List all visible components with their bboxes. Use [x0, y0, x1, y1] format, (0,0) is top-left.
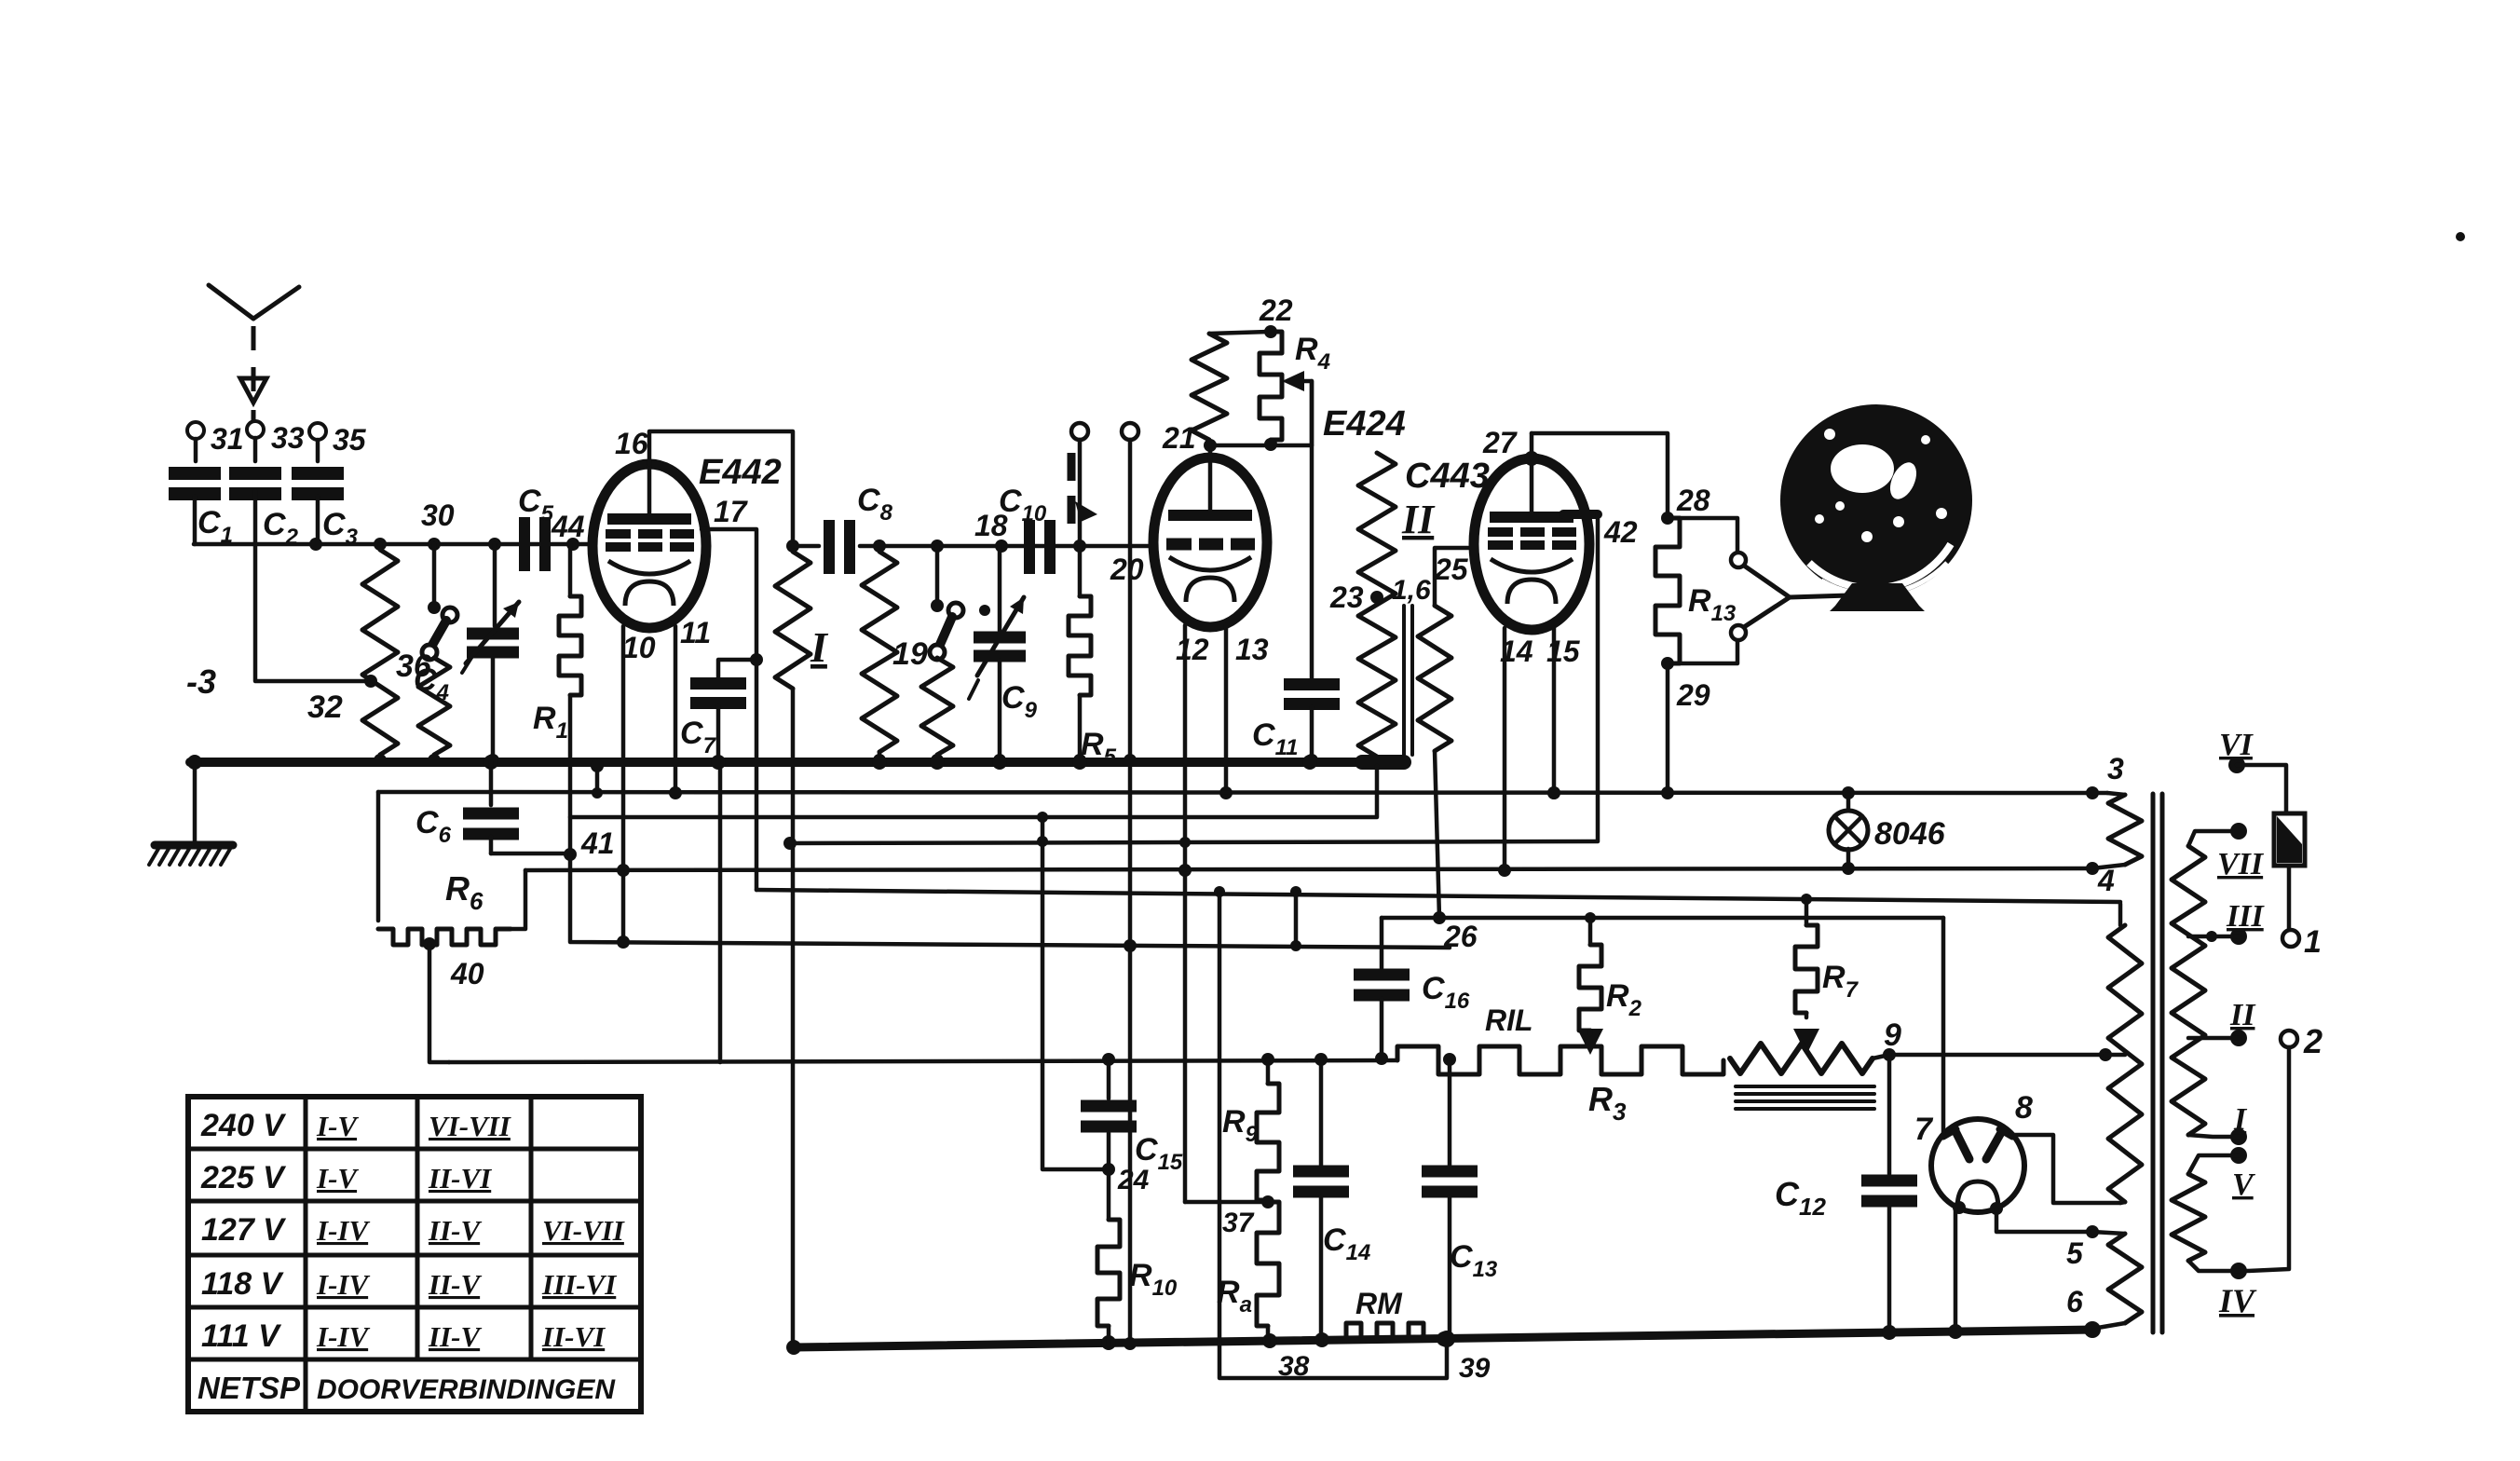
svg-text:I-IV: I-IV — [316, 1268, 370, 1301]
node 24 — [1102, 1163, 1115, 1176]
svg-text:6: 6 — [2066, 1285, 2083, 1318]
svg-text:I-V: I-V — [316, 1162, 359, 1195]
primary section 5-6 — [2092, 1232, 2125, 1234]
svg-text:I: I — [810, 623, 829, 671]
svg-text:RIL: RIL — [1485, 1004, 1533, 1037]
wire 26 — [1382, 916, 1943, 921]
node C3 junction — [309, 538, 322, 551]
svg-text:24: 24 — [1117, 1165, 1150, 1195]
speck — [2456, 232, 2465, 241]
resistor II primary — [1358, 453, 1396, 757]
resistor 32 — [362, 550, 398, 755]
svg-text:225 V: 225 V — [200, 1160, 287, 1195]
wire node21 to R4/II — [1210, 444, 1312, 448]
capacitor C9 (variable) — [995, 539, 1008, 553]
primary middle section — [2118, 904, 2123, 925]
svg-text:127 V: 127 V — [201, 1212, 287, 1248]
pin 8 lead — [2010, 1135, 2120, 1203]
resistor R13 — [1655, 518, 1680, 663]
svg-text:33: 33 — [271, 421, 305, 455]
ground — [193, 762, 198, 842]
resistor 25 secondary — [1435, 548, 1474, 606]
svg-text:30: 30 — [421, 498, 455, 532]
svg-text:39: 39 — [1459, 1353, 1491, 1384]
resistor (C8 load) — [873, 539, 886, 553]
resistor R6 — [378, 929, 511, 945]
bottom chassis bus — [794, 1330, 2096, 1347]
terminal line b (20) — [1122, 423, 1138, 440]
svg-text:E424: E424 — [1323, 404, 1406, 444]
pin 11 lead — [674, 626, 678, 793]
resistor R2 — [1585, 912, 1596, 923]
stub 641 — [595, 762, 600, 793]
svg-text:37: 37 — [1222, 1208, 1255, 1238]
svg-text:E442: E442 — [699, 453, 782, 492]
svg-text:I-V: I-V — [316, 1110, 359, 1142]
wire 17 grid lead — [702, 529, 756, 890]
resistor R9 — [1261, 1053, 1274, 1066]
svg-text:10: 10 — [622, 631, 656, 664]
capacitor C11 — [1310, 381, 1314, 679]
terminal line a — [1071, 423, 1088, 440]
capacitor C16 — [1380, 918, 1384, 968]
wire 12 to 37 — [1185, 1200, 1268, 1205]
svg-text:15: 15 — [1546, 635, 1581, 668]
R4 wiper arrow — [1302, 381, 1312, 445]
under loop to node 39 — [1219, 891, 1447, 1378]
svg-text:-3: -3 — [186, 662, 216, 701]
wire 40 down — [429, 944, 449, 1062]
svg-text:VII: VII — [2217, 847, 2265, 881]
node 21 — [1208, 445, 1213, 457]
capacitor C10 — [1024, 520, 1035, 574]
antenna — [209, 285, 253, 319]
capacitor C8 — [793, 544, 819, 549]
IF core — [1402, 606, 1406, 755]
resistor RM — [1330, 1323, 1439, 1340]
capacitor C4 (variable) — [488, 538, 501, 551]
resistor 19 lower — [921, 658, 953, 755]
resistor R1 — [566, 538, 579, 551]
svg-text:111 V: 111 V — [201, 1318, 282, 1354]
wire 42 return — [790, 841, 1598, 843]
panel dashes — [1068, 453, 1076, 531]
wire heater A (R6 top to tap 3) — [378, 792, 2092, 793]
wire 27 to 28 — [1532, 433, 1668, 518]
capacitor C5 — [519, 517, 530, 571]
R6 right side step — [511, 870, 525, 929]
capacitor C14 — [1314, 1053, 1328, 1066]
svg-text:13: 13 — [1235, 633, 1269, 666]
svg-text:8046: 8046 — [1874, 816, 1946, 852]
svg-text:41: 41 — [580, 826, 615, 860]
svg-text:II-V: II-V — [428, 1268, 482, 1301]
resistor R7 — [1801, 894, 1812, 905]
svg-text:1: 1 — [2304, 924, 2322, 960]
svg-text:II-VI: II-VI — [428, 1162, 492, 1195]
node 30 — [428, 538, 441, 551]
svg-text:14: 14 — [1500, 635, 1533, 668]
terminal 2 — [2281, 1031, 2297, 1047]
pin 10 lead — [621, 626, 626, 944]
resistor R4 left section — [1192, 334, 1227, 440]
switch 19 — [931, 539, 944, 553]
svg-text:I-IV: I-IV — [316, 1320, 370, 1353]
bus junction dots — [711, 755, 726, 770]
svg-text:I: I — [2233, 1102, 2248, 1137]
tube E442 — [593, 464, 706, 628]
wire AVC B — [570, 766, 1377, 817]
terminal 31 — [187, 422, 204, 439]
svg-text:7: 7 — [1914, 1112, 1934, 1147]
pin 14 lead — [1503, 628, 1507, 870]
R13 parallel contacts — [1668, 518, 1737, 552]
tap II — [2230, 1030, 2247, 1046]
wire E (17 line to winding top) — [756, 890, 2120, 902]
svg-text:VI-VII: VI-VII — [542, 1214, 625, 1247]
svg-text:12: 12 — [1176, 633, 1209, 666]
wire C6 bottom to 41 — [491, 852, 570, 856]
capacitor C7 — [718, 660, 756, 677]
svg-text:II-V: II-V — [428, 1214, 482, 1247]
speaker — [1744, 566, 1849, 597]
svg-text:8: 8 — [2015, 1090, 2033, 1126]
tube E424 — [1153, 457, 1267, 627]
svg-text:RM: RM — [1355, 1287, 1403, 1320]
svg-text:240 V: 240 V — [200, 1108, 287, 1143]
svg-text:17: 17 — [714, 495, 749, 528]
svg-text:42: 42 — [1603, 515, 1638, 549]
wire bias D (R6 tap to tap 4) — [525, 868, 2092, 870]
svg-text:NETSP: NETSP — [198, 1371, 301, 1405]
svg-text:25: 25 — [1434, 553, 1469, 586]
svg-text:44: 44 — [551, 510, 585, 543]
node 9 — [1883, 1048, 1896, 1061]
node 22 — [1264, 325, 1277, 338]
svg-text:40: 40 — [450, 957, 484, 990]
resistor R3 — [1397, 1046, 1723, 1074]
resistor Ra — [1257, 1202, 1279, 1326]
wire antenna input line — [194, 542, 593, 547]
svg-text:16: 16 — [615, 427, 648, 460]
svg-text:29: 29 — [1676, 678, 1710, 712]
svg-text:II: II — [2229, 998, 2256, 1032]
fuse — [2274, 813, 2305, 866]
node 28 — [1661, 512, 1674, 525]
capacitor C13 — [1443, 1053, 1456, 1066]
svg-text:IV: IV — [2218, 1282, 2257, 1319]
filament pins — [1953, 1201, 1966, 1214]
step down to node 24 — [1042, 817, 1109, 1169]
wire H (41 line) — [570, 854, 1450, 948]
pin 7 lead — [1941, 918, 1946, 1135]
svg-text:11: 11 — [680, 616, 711, 649]
svg-text:9: 9 — [1884, 1017, 1901, 1053]
capacitor C3 — [292, 467, 344, 480]
wire 16 anode top box — [649, 431, 793, 541]
pin 13 lead — [1224, 625, 1229, 793]
switch 36 — [432, 544, 437, 604]
svg-text:27: 27 — [1482, 426, 1519, 459]
terminal 1 — [2287, 866, 2292, 929]
wire node9 to winding centre tap — [1889, 1053, 2105, 1058]
tap III — [2230, 928, 2247, 945]
resistor 36 lower — [418, 658, 450, 755]
node 27 — [1524, 451, 1539, 466]
rectifier tube — [1931, 1119, 2024, 1212]
wire 29 down — [1666, 663, 1670, 793]
wire 40/main distribution — [449, 1060, 1397, 1062]
svg-text:V: V — [2232, 1167, 2255, 1202]
primary section 3-4 — [2086, 786, 2099, 799]
svg-text:III: III — [2226, 899, 2265, 934]
wire C2 tap down to resistor 32 — [255, 491, 371, 681]
transformer core — [2151, 794, 2156, 1332]
svg-text:22: 22 — [1259, 294, 1293, 327]
svg-text:5: 5 — [2066, 1236, 2084, 1270]
svg-text:31: 31 — [211, 422, 244, 456]
svg-text:II-VI: II-VI — [541, 1320, 606, 1353]
svg-text:21: 21 — [1162, 421, 1196, 455]
svg-text:III-VI: III-VI — [541, 1268, 617, 1301]
svg-text:19: 19 — [892, 636, 928, 672]
resistor R10 — [1097, 1220, 1120, 1326]
R6 box outline — [376, 792, 381, 921]
lamp 8046 — [1846, 793, 1851, 812]
resistor I — [775, 552, 810, 689]
tube C443 — [1474, 458, 1589, 630]
capacitor C2 — [229, 467, 281, 480]
slider track lines — [1736, 1085, 1874, 1088]
svg-text:1,6: 1,6 — [1392, 575, 1431, 606]
svg-text:3: 3 — [2107, 752, 2124, 785]
secondary winding lower — [2230, 1147, 2247, 1164]
svg-text:32: 32 — [307, 690, 343, 725]
node 29 — [1661, 657, 1674, 670]
chassis bus — [190, 758, 1404, 767]
svg-text:118 V: 118 V — [201, 1266, 285, 1302]
resistor R5 — [1078, 546, 1083, 596]
svg-text:20: 20 — [1110, 553, 1144, 586]
terminal 33 — [247, 421, 264, 438]
svg-text:C443: C443 — [1405, 457, 1490, 496]
svg-text:II-V: II-V — [428, 1320, 482, 1353]
tap I — [2230, 1128, 2247, 1145]
capacitor C12 — [1887, 1055, 1892, 1174]
svg-text:35: 35 — [333, 423, 367, 457]
svg-text:DOORVERBINDINGEN: DOORVERBINDINGEN — [317, 1374, 616, 1405]
node 41 — [564, 848, 577, 861]
pin 12 lead — [1183, 625, 1188, 1202]
node 23 — [1370, 591, 1383, 604]
pin 15 lead — [1552, 628, 1557, 793]
svg-text:28: 28 — [1676, 484, 1710, 517]
secondary winding upper — [2188, 831, 2239, 846]
table NETSP / DOORVERBINDINGEN — [188, 1097, 641, 1412]
svg-text:VI-VII: VI-VII — [429, 1110, 511, 1142]
svg-text:II: II — [1401, 497, 1436, 542]
svg-text:23: 23 — [1329, 580, 1364, 614]
svg-text:2: 2 — [2303, 1022, 2322, 1060]
bus end blob — [1362, 755, 1404, 770]
capacitor C15 — [1102, 1053, 1115, 1066]
capacitor C1 — [169, 467, 221, 480]
node 37 — [1261, 1195, 1274, 1208]
resistor R4 right meander — [1260, 332, 1282, 440]
terminal 35 — [309, 423, 326, 440]
svg-text:I-IV: I-IV — [316, 1214, 370, 1247]
node 40 — [423, 937, 436, 950]
capacitor C6 — [484, 755, 498, 770]
anode side bar 42 — [1563, 510, 1598, 519]
svg-text:18: 18 — [974, 509, 1008, 542]
